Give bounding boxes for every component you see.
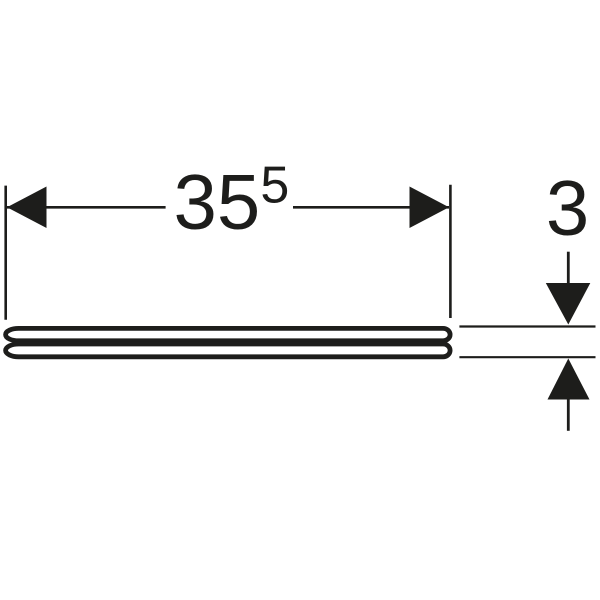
svg-text:3: 3 (546, 164, 589, 252)
svg-text:5: 5 (260, 157, 289, 215)
svg-text:35: 35 (174, 158, 261, 246)
